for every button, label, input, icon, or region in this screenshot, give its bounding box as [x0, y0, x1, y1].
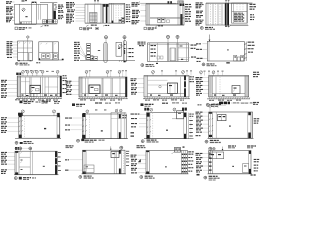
- elevation 1C leader lines: [141, 3, 147, 5]
- elevation 3A left wall hatch: [17, 76, 19, 97]
- elevation 2B corner ticks: [40, 43, 42, 44]
- elevation 3A mullions: [24, 77, 26, 97]
- elevation 2E mullions: [156, 43, 158, 62]
- elevation 1A right small marks: [54, 4, 56, 5]
- detail 2C base: [86, 56, 93, 60]
- section 5B markers: [110, 146, 112, 150]
- elevation 1C outline: [146, 4, 184, 25]
- section 4B right annotations: [122, 115, 124, 116]
- elevation 1B left annotation column A: [58, 5, 61, 6]
- elevation 1C header line: [146, 4, 184, 6]
- elevation 1A title: [15, 27, 18, 30]
- elevation 1C top leader: [139, 1, 141, 3]
- elevation 3C outline: [144, 76, 189, 97]
- section 4B center mark: [101, 130, 103, 131]
- elevation 1C counter lines: [150, 17, 184, 19]
- detail 2C left annotation column: [74, 42, 77, 43]
- section 5D bottom-right box: [243, 164, 249, 173]
- detail 2C small dash: [98, 50, 100, 51]
- elevation 1D title: [200, 26, 203, 29]
- detail 2D panel: [116, 42, 122, 56]
- elevation 1C under-counter boxes: [158, 18, 162, 23]
- elevation 3B mullions: [85, 78, 87, 97]
- section 5A leader lines: [8, 151, 16, 153]
- elevation 3A partial shelf lines: [21, 81, 30, 83]
- elevation 3B counter line: [82, 92, 127, 94]
- elevation 3C right annotation column: [190, 76, 192, 77]
- elevation 1A bottom edge: [15, 23, 58, 25]
- elevation 3C left annotation column: [131, 78, 134, 79]
- elevation 3D fixture: [232, 86, 240, 94]
- elevation 2F title: [202, 63, 205, 66]
- section 4C leader lines: [139, 113, 147, 115]
- elevation 2A leader lines: [13, 41, 18, 43]
- section 5D left annotation column: [196, 153, 200, 154]
- elevation 3B bottom text band: [80, 99, 83, 100]
- elevation 3A dark right column: [60, 76, 62, 97]
- section 4A floor line: [15, 137, 61, 139]
- elevation 1B header line: [85, 3, 125, 5]
- section 5A left jamb: [16, 151, 18, 174]
- section 4B floor line: [82, 138, 129, 140]
- elevation 3B floor hatch: [78, 97, 81, 99]
- elevation 1B bottom notes: [86, 25, 89, 26]
- elevation 1C bottom note: [156, 26, 158, 27]
- section 5A floor line: [14, 174, 59, 176]
- elevation 1B dark header band: [103, 4, 106, 7]
- detail 2D capsule column: [123, 41, 126, 62]
- elevation 2A left annotation column: [7, 41, 10, 42]
- elevation 3D right annotations: [253, 72, 256, 73]
- section 5A center dash: [43, 166, 45, 167]
- section 4D right annotations: [254, 118, 257, 119]
- elevation 1C cabinet top extension: [177, 1, 179, 4]
- section 5A dark right column: [55, 151, 57, 174]
- elevation 3D title: [206, 103, 209, 106]
- section 5A dimension header: [15, 147, 17, 150]
- elevation 3A floor hatch: [17, 97, 20, 99]
- section 5D markers: [209, 147, 212, 150]
- section 4C outline: [147, 113, 187, 139]
- elevation 1A outline: [15, 4, 48, 24]
- elevation 2A title: [15, 62, 18, 65]
- elevation 2B plinth marks: [39, 58, 40, 60]
- elevation 1D top tie marks: [225, 1, 227, 4]
- elevation 1A bottom hatch band: [20, 21, 32, 23]
- elevation 3B leader lines: [72, 80, 79, 82]
- elevation 1B shelf ladder: [90, 12, 98, 22]
- section 5C wedge mark: [138, 159, 141, 162]
- section 4D outline: [209, 112, 253, 138]
- elevation 1A hatch diamond: [22, 8, 26, 12]
- section 4C far right lines: [187, 113, 189, 139]
- elevation 1B top marks: [94, 0, 96, 2]
- section 4D top beam: [219, 102, 223, 105]
- elevation 3D bottom text band: [209, 100, 212, 101]
- elevation 3C niche box: [168, 83, 178, 93]
- detail 2C baseline: [80, 59, 135, 61]
- elevation 3D mullions: [215, 77, 217, 97]
- elevation 1A dark bar: [54, 11, 56, 19]
- elevation 3A mirror box: [30, 85, 40, 93]
- detail 2C tower: [87, 44, 91, 60]
- elevation 3A leader lines: [8, 80, 18, 82]
- elevation 3C leader lines: [138, 78, 145, 80]
- section 5D leader lines: [203, 152, 209, 154]
- elevation 3D left annotation column: [196, 77, 200, 78]
- elevation 3B mirror box: [89, 85, 100, 93]
- section 4C right jamb: [183, 113, 185, 139]
- elevation 3C base marks: [150, 95, 152, 96]
- section 4D right jamb: [247, 112, 249, 138]
- section 5C right ladder: [180, 151, 182, 174]
- elevation 1A top marks: [22, 0, 25, 1]
- section 5A right annotations: [58, 151, 61, 154]
- elevation 1B dashed door lines: [115, 5, 117, 22]
- section 4B left jamb: [83, 113, 85, 139]
- section 5C center mark: [165, 166, 167, 167]
- section 4B left annotations: [65, 118, 69, 119]
- elevation 2E outline: [148, 43, 189, 62]
- section 4D wall box: [218, 115, 227, 121]
- section 5D top-left box: [210, 152, 224, 159]
- elevation 1B left annotation column B: [66, 2, 69, 3]
- section 5A mullion: [32, 151, 34, 174]
- elevation 3B base marks: [84, 95, 86, 96]
- section 4D floor line: [208, 137, 254, 139]
- section 4C left annotation column: [131, 114, 134, 115]
- elevation 1B leader lines: [76, 4, 86, 6]
- section 5C right annotations: [188, 151, 191, 152]
- section 5C top notes: [137, 145, 140, 146]
- section 5B title: [79, 175, 82, 178]
- elevation 3D outline: [209, 76, 249, 97]
- elevation 2A gray stile: [28, 53, 29, 61]
- elevation 2F bottom boxes: [234, 55, 237, 61]
- elevation 1D note arrow: [225, 26, 227, 27]
- section 5B left annotations: [65, 159, 67, 160]
- section 4C dimension header: [144, 108, 146, 111]
- section 4A outline: [19, 116, 60, 138]
- elevation 2A feet: [18, 60, 20, 61]
- section 5C leader lines: [138, 154, 147, 156]
- section 5C outline: [146, 151, 188, 174]
- elevation 2E dim circles: [166, 35, 169, 38]
- elevation 2E dashed boxes: [157, 56, 160, 59]
- elevation 2E left cell notes: [151, 45, 154, 46]
- elevation 1C right tall cabinet: [177, 4, 179, 25]
- section 4A top note band: [25, 101, 30, 104]
- section 4A dashed line: [24, 116, 26, 138]
- section 4D left annotation column: [196, 112, 200, 113]
- elevation 2E corner mark: [156, 63, 158, 64]
- elevation 1C right annotation column: [185, 4, 188, 5]
- section 5C title: [140, 176, 143, 179]
- section 4B dashed line: [89, 114, 91, 139]
- elevation 1D dark pier bars: [225, 3, 227, 25]
- elevation 3C bottom text band: [145, 100, 148, 101]
- section 4B dimension header: [86, 110, 89, 113]
- section 4B outline: [82, 114, 126, 139]
- detail 2C capsule column: [104, 42, 107, 62]
- elevation 3C dimension header: [152, 71, 155, 74]
- section 5B top notes: [66, 145, 69, 146]
- section 5C top-right structure: [174, 148, 180, 153]
- section 5D right annotations: [254, 159, 257, 160]
- elevation 2A cabinet outline: [18, 41, 33, 61]
- section 5B right annotations: [126, 150, 129, 153]
- section 5B right section: [113, 158, 115, 174]
- section 4D left jamb: [209, 112, 211, 138]
- elevation 3C floor hatch: [143, 97, 146, 99]
- elevation 1A shelf band: [43, 20, 58, 24]
- elevation 2F arrow: [209, 35, 211, 42]
- elevation 1A left annotation column: [6, 1, 9, 2]
- section 4A left annotation column: [1, 117, 4, 118]
- section 4C right annotations: [189, 114, 191, 115]
- section 5C floor line: [145, 173, 189, 175]
- elevation 3B left wall hatch: [79, 77, 81, 97]
- section 4D leader lines: [203, 111, 209, 113]
- section 4D center mark: [229, 126, 231, 127]
- section 5B outline: [83, 150, 126, 174]
- section 5B top-right box: [111, 151, 119, 157]
- section 5D outline: [209, 151, 251, 174]
- section 5A title: [14, 177, 17, 180]
- elevation 2E right cell: [178, 47, 188, 49]
- elevation 3D base marks: [214, 95, 216, 96]
- elevation 1C bottom edge: [146, 24, 184, 26]
- elevation 3B dimension header: [85, 71, 88, 74]
- elevation 2F right annotations: [248, 42, 251, 43]
- elevation 2E inner door: [170, 48, 176, 61]
- elevation 2B drawer boxes: [42, 54, 46, 59]
- elevation 1D right cabinet outline: [232, 3, 248, 23]
- detail 2C leader fan: [80, 46, 86, 56]
- elevation 1A upper header line: [40, 2, 57, 4]
- elevation 3D floor hatch: [208, 97, 211, 99]
- section 5A left annotation column: [1, 152, 4, 153]
- elevation 3C shelf lines: [148, 79, 168, 81]
- elevation 3C counter line: [148, 92, 185, 94]
- elevation 1A right panel lines: [38, 4, 40, 19]
- section 5D floor line: [208, 173, 253, 175]
- elevation 2F outline: [207, 42, 244, 62]
- elevation 3A title: [20, 101, 23, 104]
- section 5D right jamb: [248, 151, 250, 174]
- section 4B right section: [110, 113, 112, 139]
- elevation 1D bottom edges: [206, 24, 248, 26]
- elevation 1A note arrow: [41, 26, 44, 27]
- section 5D left jamb ladder: [209, 151, 211, 174]
- elevation 1C top mark: [168, 1, 170, 4]
- elevation 3D right hatch column: [245, 76, 247, 97]
- elevation 2E right annotations: [191, 45, 194, 46]
- elevation 3A counter line: [21, 92, 62, 94]
- section 4C floor line: [144, 138, 194, 140]
- elevation 2F floor mark: [226, 62, 230, 63]
- elevation 3B left annotation column: [66, 81, 69, 82]
- detail 2D circle tag: [119, 44, 123, 48]
- section 5C left annotation column: [131, 155, 134, 156]
- section 5D top notes: [228, 145, 231, 146]
- elevation 3A bottom text band: [15, 99, 18, 100]
- elevation 2A dimension marker: [26, 36, 29, 39]
- detail 2D floor hatch: [118, 61, 121, 63]
- elevation 1D left annotation column: [196, 2, 200, 3]
- section 4A dimension header: [18, 113, 20, 116]
- elevation 3A left annotation column: [1, 80, 4, 81]
- section 4C left jamb: [147, 113, 149, 139]
- elevation 3B outline: [79, 77, 127, 97]
- detail 2D dim circle: [123, 36, 126, 39]
- section 4C title: [141, 140, 144, 143]
- detail 2D annotations: [129, 48, 132, 49]
- elevation 2B title mark: [36, 62, 38, 63]
- elevation 3A dimension header: [16, 73, 19, 75]
- section 5B floor line: [82, 173, 127, 175]
- elevation 1B dark door bar: [106, 4, 108, 23]
- elevation 2E top notes: [138, 42, 141, 43]
- elevation 1B left cabinet outline: [85, 4, 101, 23]
- elevation 1A wardrobe column: [31, 2, 33, 24]
- elevation 2E title: [141, 64, 144, 67]
- elevation 1D header lines: [206, 2, 253, 4]
- elevation 2A corner ticks: [19, 42, 21, 43]
- section 5D center dot: [232, 166, 234, 167]
- elevation 1C title: [144, 27, 146, 29]
- elevation 1A double mullion: [51, 3, 53, 20]
- section 4D dimension header: [198, 104, 200, 105]
- elevation 3A base boxes and marks: [31, 94, 34, 97]
- elevation 3C circle fixture: [159, 86, 161, 88]
- section 5A door panel: [19, 156, 30, 158]
- elevation 2F center dash: [227, 49, 229, 50]
- section 4C center dot: [166, 130, 168, 131]
- section 5B left jamb: [83, 150, 85, 174]
- section 5D title: [204, 176, 207, 179]
- section 4A center mark: [44, 128, 46, 129]
- section 4D title: [205, 140, 208, 143]
- detail 2C dim circle: [104, 36, 107, 39]
- elevation 1C left annotation column: [132, 2, 136, 3]
- section 5A outline: [15, 151, 57, 174]
- elevation 1D left panel: [205, 3, 207, 26]
- elevation 1B mullion pair: [102, 4, 104, 23]
- elevation 3A outline: [17, 76, 61, 97]
- elevation 1B right annotation column: [126, 4, 128, 5]
- section 4A title: [15, 141, 18, 144]
- elevation 2F left annotations: [196, 43, 199, 44]
- section 4C dashed line: [152, 113, 154, 139]
- section 5B lower-left box: [84, 165, 94, 173]
- elevation 1B step boxes: [119, 20, 122, 24]
- elevation 1B bottom edge: [85, 22, 125, 24]
- section 4B title: [77, 139, 80, 142]
- section 4C wall hook box: [177, 111, 184, 119]
- elevation 3D dimension header: [200, 71, 203, 74]
- elevation 3C dark right column: [184, 76, 186, 97]
- elevation 1B right cabinet outline: [109, 3, 125, 23]
- elevation 1D right annotation column: [250, 4, 253, 5]
- elevation 2B cabinet outline: [39, 42, 59, 60]
- elevation 3D left wall hatch: [208, 76, 210, 97]
- elevation 3C mullion: [180, 77, 182, 97]
- elevation 3D leader lines: [203, 77, 209, 79]
- elevation 1A leader lines: [12, 1, 14, 3]
- elevation 3B title: [72, 103, 75, 106]
- elevation 3C title: [141, 103, 144, 106]
- section 4A leader lines: [8, 117, 19, 119]
- elevation 3C left wall lines: [145, 76, 147, 97]
- elevation 1B dark corner blob: [112, 21, 114, 24]
- elevation 1C left wall column: [146, 4, 148, 25]
- elevation 3A right annotation column: [63, 75, 65, 76]
- elevation 1A small dash: [25, 16, 27, 17]
- elevation 2F right hatch column: [245, 42, 247, 62]
- elevation 1B title: [80, 27, 82, 29]
- elevation 1D upper dashed lines: [236, 4, 238, 12]
- elevation 3B dark right column: [125, 77, 127, 97]
- elevation 3D counter line: [212, 92, 245, 94]
- elevation 1D schedule divider: [232, 11, 248, 13]
- section 5C left jamb: [146, 151, 148, 174]
- elevation 1D schedule table: [234, 12, 237, 15]
- section 4A left jamb: [19, 114, 21, 139]
- section 4A right jamb: [56, 113, 58, 138]
